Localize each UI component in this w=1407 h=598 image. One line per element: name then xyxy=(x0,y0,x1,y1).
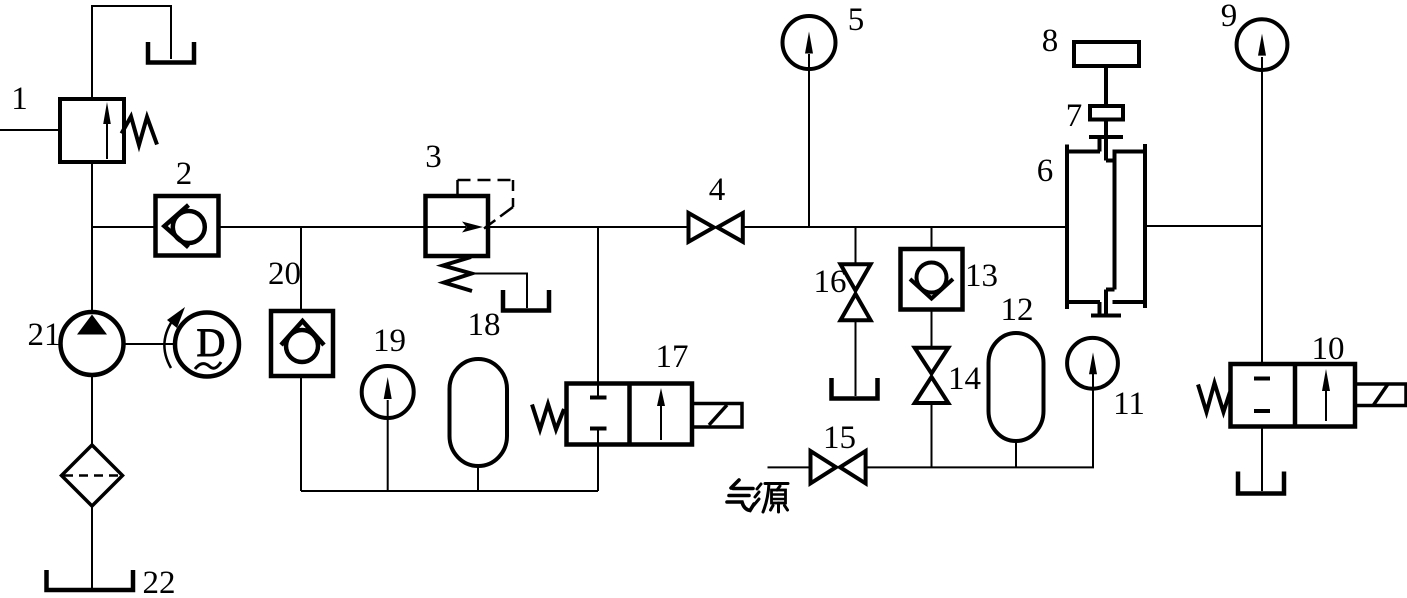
svg-text:7: 7 xyxy=(1066,98,1083,134)
svg-text:3: 3 xyxy=(425,139,442,175)
svg-text:9: 9 xyxy=(1221,0,1238,34)
svg-text:16: 16 xyxy=(814,264,847,300)
svg-text:1: 1 xyxy=(11,81,28,117)
svg-text:D: D xyxy=(197,320,226,365)
svg-text:6: 6 xyxy=(1037,153,1054,189)
svg-text:4: 4 xyxy=(709,172,726,208)
svg-text:5: 5 xyxy=(848,2,865,38)
svg-text:8: 8 xyxy=(1042,23,1059,59)
svg-text:20: 20 xyxy=(268,256,301,292)
svg-text:22: 22 xyxy=(143,565,176,598)
svg-text:13: 13 xyxy=(965,258,998,294)
svg-text:2: 2 xyxy=(176,156,193,192)
svg-text:17: 17 xyxy=(656,339,689,375)
svg-text:19: 19 xyxy=(373,323,406,359)
svg-text:12: 12 xyxy=(1001,292,1034,328)
svg-text:15: 15 xyxy=(823,420,856,456)
svg-text:18: 18 xyxy=(468,307,501,343)
svg-text:11: 11 xyxy=(1113,386,1145,422)
svg-text:14: 14 xyxy=(948,361,981,397)
svg-text:10: 10 xyxy=(1312,331,1345,367)
svg-text:21: 21 xyxy=(28,317,61,353)
